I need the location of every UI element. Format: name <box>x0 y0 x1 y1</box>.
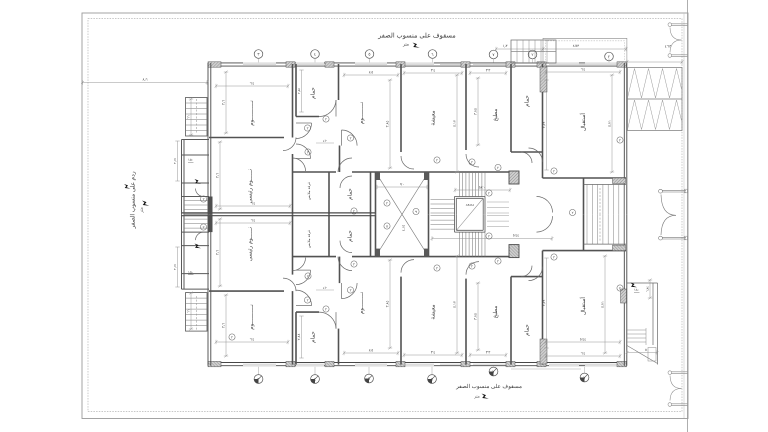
svg-text:معيشة: معيشة <box>431 304 437 319</box>
svg-text:٣,٨٥: ٣,٨٥ <box>474 313 478 320</box>
svg-text:حمام: حمام <box>347 188 354 200</box>
shaft stair number circles <box>384 200 419 229</box>
svg-text:٥٣'٨: ٥٣'٨ <box>573 44 581 48</box>
svg-text:نـــــــــــوم: نـــــــــــوم <box>249 304 255 330</box>
svg-text:٤,١٥: ٤,١٥ <box>402 225 406 232</box>
svg-text:٢: ٢ <box>350 136 352 140</box>
svg-text:١'٦: ١'٦ <box>187 115 191 119</box>
svg-text:حمام: حمام <box>347 230 354 242</box>
corridor column <box>509 171 519 184</box>
svg-text:٦٣'٤: ٦٣'٤ <box>665 45 673 49</box>
svg-text:مسقوف على منسوب الصفر: مسقوف على منسوب الصفر <box>377 32 456 40</box>
svg-text:مسقوف على منسوب الصفر: مسقوف على منسوب الصفر <box>455 383 522 390</box>
svg-text:٠'٥٨: ٠'٥٨ <box>479 186 486 190</box>
svg-text:٥: ٥ <box>645 348 647 352</box>
svg-text:٢'٤: ٢'٤ <box>323 139 327 143</box>
canopy outline above reception <box>543 38 627 63</box>
svg-text:٣٫٦: ٣٫٦ <box>222 100 226 105</box>
svg-text:٣,٨٥: ٣,٨٥ <box>474 108 478 115</box>
site dim top-left <box>81 80 209 84</box>
svg-text:٥: ٥ <box>368 52 370 57</box>
dim bedroom2 b <box>343 351 400 355</box>
bottom-right terrace block <box>627 283 658 365</box>
svg-text:٤٤'٥: ٤٤'٥ <box>580 338 587 342</box>
interior partition walls <box>209 64 626 214</box>
elevator box <box>455 197 486 215</box>
svg-text:٨٫٦: ٨٫٦ <box>142 78 147 82</box>
svg-text:٣,١٧: ٣,١٧ <box>173 264 177 270</box>
svg-text:٥,٨١: ٥,٨١ <box>601 301 605 308</box>
entrance ramp (hatched, top-right) <box>628 68 683 131</box>
svg-text:٢: ٢ <box>325 117 327 121</box>
dim master top <box>218 141 222 211</box>
svg-text:٣,٤٩: ٣,٤٩ <box>542 122 546 129</box>
svg-text:متر: متر <box>473 394 480 399</box>
svg-text:نـــــــــــوم: نـــــــــــوم <box>249 100 255 126</box>
svg-text:٢: ٢ <box>608 54 610 59</box>
svg-text:٥'٨: ٥'٨ <box>369 349 374 353</box>
wall columns (hatched) on top wall <box>208 62 627 67</box>
svg-text:٤٤'٥: ٤٤'٥ <box>513 234 520 238</box>
svg-text:٦: ٦ <box>431 52 433 57</box>
party wall dark stub <box>208 197 213 215</box>
door tag circles <box>351 208 357 214</box>
svg-text:مطبخ: مطبخ <box>492 109 499 122</box>
dim master bottom <box>218 218 222 288</box>
dim reception inner top <box>544 80 548 170</box>
right stair treads <box>587 185 624 215</box>
svg-text:متر: متر <box>402 42 409 47</box>
dim reception b2 <box>545 340 622 344</box>
room labels (vertical) <box>247 87 588 343</box>
inner setback border (dotted) <box>88 19 682 412</box>
gate swing symbol bottom-right <box>668 371 688 407</box>
svg-text:٢'٤: ٢'٤ <box>323 286 327 290</box>
svg-text:حمام: حمام <box>524 95 531 107</box>
dim kitchen b <box>469 353 508 357</box>
svg-text:٢: ٢ <box>553 169 555 173</box>
bottom datum bubbles quadrant fills & leaders <box>254 379 258 383</box>
dim bedroom1 <box>215 84 290 88</box>
hatched wall pier near reception (top) <box>540 67 547 92</box>
dim bedroom2 <box>343 73 400 77</box>
svg-text:حمام: حمام <box>310 87 317 99</box>
hatched wall pier near reception (bottom) <box>540 339 547 364</box>
svg-text:٢: ٢ <box>572 211 574 215</box>
svg-text:٢: ٢ <box>353 262 355 266</box>
svg-text:٣٫٦: ٣٫٦ <box>216 173 220 178</box>
svg-text:٢: ٢ <box>471 264 473 268</box>
dim ramp <box>626 60 684 64</box>
gate swing symbol top-right <box>668 23 688 58</box>
left protrusion block <box>182 140 210 215</box>
svg-text:٢: ٢ <box>307 274 309 278</box>
svg-text:مطبخ: مطبخ <box>492 306 499 319</box>
svg-text:نــــــوم رئيسى: نــــــوم رئيسى <box>247 168 254 203</box>
svg-text:٢: ٢ <box>436 158 438 162</box>
dim bedroom1 b <box>215 340 290 344</box>
svg-text:٢: ٢ <box>307 126 309 130</box>
bottom title glyph <box>482 394 489 399</box>
dim reception top <box>545 70 622 74</box>
party wall (mid) <box>182 212 376 214</box>
svg-text:٣٫٦: ٣٫٦ <box>216 250 220 255</box>
hall tag circle right <box>569 209 575 215</box>
svg-text:٤'٦: ٤'٦ <box>581 68 586 72</box>
dim reception roof <box>542 47 628 51</box>
svg-text:حمام: حمام <box>524 324 531 336</box>
svg-text:مصعد: مصعد <box>466 203 475 207</box>
svg-text:٣,٨٥: ٣,٨٥ <box>386 301 390 308</box>
dim living top <box>403 71 464 75</box>
stair treads left run <box>431 200 455 214</box>
svg-text:غرفة ملابس: غرفة ملابس <box>306 182 311 200</box>
svg-text:٤: ٤ <box>314 52 316 57</box>
dim kitchen top <box>469 71 508 75</box>
shaft dims <box>377 185 427 189</box>
svg-text:٢: ٢ <box>488 234 490 238</box>
outer property border <box>82 13 688 419</box>
svg-text:٢: ٢ <box>386 201 388 205</box>
elevator diagonal <box>456 198 483 230</box>
svg-text:٢: ٢ <box>531 52 533 57</box>
protrusion mini stair treads <box>184 201 208 215</box>
landing treads right of elevator <box>487 202 509 213</box>
svg-text:نـــــــــوم: نـــــــــوم <box>359 291 365 314</box>
main entrance double door (right wall, middle) <box>659 189 686 240</box>
top bubble leaders <box>258 58 260 62</box>
svg-text:٢: ٢ <box>497 166 499 170</box>
svg-text:ردم على منسوب الصفر: ردم على منسوب الصفر <box>130 171 137 229</box>
top title glyph <box>413 43 420 48</box>
svg-text:٢: ٢ <box>325 307 327 311</box>
right wall hatched column lower <box>621 289 627 303</box>
shaft corner columns <box>376 172 381 180</box>
svg-text:٥,١٧: ٥,١٧ <box>453 119 457 127</box>
right exterior wall <box>623 63 625 214</box>
door arcs <box>196 100 553 213</box>
dim bath1 <box>299 70 303 112</box>
svg-text:٢: ٢ <box>619 286 621 290</box>
svg-text:٥,١٧: ٥,١٧ <box>453 300 457 308</box>
dim reception b <box>545 354 622 358</box>
svg-text:٣,٨٥: ٣,٨٥ <box>386 121 390 128</box>
svg-text:٣,٤٩: ٣,٤٩ <box>542 300 546 307</box>
top entrance steps (only top) <box>511 40 556 63</box>
porch edge below reception-left <box>511 368 581 370</box>
svg-text:٥,٨١: ٥,٨١ <box>608 120 612 127</box>
svg-text:٢: ٢ <box>488 191 490 195</box>
street line right <box>687 0 689 432</box>
bubble numerals <box>257 52 610 382</box>
section glyphs in plan <box>195 179 202 184</box>
svg-text:٢: ٢ <box>436 266 438 270</box>
svg-text:٤'٦: ٤'٦ <box>250 338 255 342</box>
svg-text:٩: ٩ <box>415 210 417 214</box>
svg-text:٢: ٢ <box>619 138 621 142</box>
dim bath1 b <box>299 316 303 358</box>
svg-text:١٥٠: ١٥٠ <box>188 158 193 162</box>
svg-text:نـــــــــوم: نـــــــــوم <box>359 101 365 124</box>
svg-text:٢: ٢ <box>203 225 205 229</box>
svg-text:٠'٩: ٠'٩ <box>400 183 404 187</box>
stair shaft walls <box>376 172 429 214</box>
svg-text:معيشة: معيشة <box>431 110 437 125</box>
svg-text:٥: ٥ <box>386 224 388 228</box>
svg-text:١'٦: ١'٦ <box>187 309 191 313</box>
svg-text:٤'٣: ٤'٣ <box>431 351 436 355</box>
stair treads above elevator <box>460 172 486 197</box>
dim reception inner bottom <box>544 258 548 348</box>
svg-text:٢,٨٨: ٢,٨٨ <box>297 88 301 94</box>
svg-text:٢: ٢ <box>471 160 473 164</box>
svg-text:٢: ٢ <box>307 298 309 302</box>
dim living b <box>403 353 464 357</box>
svg-text:حمام: حمام <box>310 331 317 343</box>
svg-text:٢,٨٨: ٢,٨٨ <box>297 333 301 341</box>
top exterior wall (double line) <box>208 63 627 67</box>
svg-text:٤'٦: ٤'٦ <box>251 219 256 223</box>
svg-text:٢: ٢ <box>350 288 352 292</box>
svg-text:٦,٧٤: ٦,٧٤ <box>646 286 650 292</box>
svg-text:غرفة ملابس: غرفة ملابس <box>306 230 311 248</box>
svg-text:٣٫٦: ٣٫٦ <box>222 323 226 328</box>
half-plan geometry (mirrored for bottom half) <box>182 62 627 215</box>
window sill lines on top wall <box>243 64 617 66</box>
svg-text:٤'٦: ٤'٦ <box>251 202 256 206</box>
shaft X diagonal <box>376 172 403 214</box>
left outer stair block <box>186 98 208 137</box>
svg-text:٢: ٢ <box>203 197 205 201</box>
dim corridor <box>431 236 554 240</box>
svg-text:٣,١٧: ٣,١٧ <box>173 158 177 164</box>
svg-text:١٥٠: ١٥٠ <box>188 271 193 275</box>
svg-text:٤'٣: ٤'٣ <box>431 69 436 73</box>
svg-text:٢: ٢ <box>553 255 555 259</box>
svg-text:١٨٠: ١٨٠ <box>634 288 639 292</box>
svg-text:٤'٦: ٤'٦ <box>581 352 586 356</box>
svg-text:٢: ٢ <box>231 335 233 339</box>
svg-text:٢: ٢ <box>353 209 355 213</box>
svg-text:متر: متر <box>139 207 144 214</box>
left title glyph <box>142 201 149 206</box>
left exterior wall <box>207 63 209 214</box>
left title second glyph <box>124 184 131 189</box>
svg-text:٤'٦: ٤'٦ <box>250 82 255 86</box>
svg-text:٢: ٢ <box>307 150 309 154</box>
svg-text:نــــــوم رئيسى: نــــــوم رئيسى <box>247 226 254 261</box>
svg-text:٥'٨: ٥'٨ <box>369 71 374 75</box>
svg-text:٢: ٢ <box>497 259 499 263</box>
